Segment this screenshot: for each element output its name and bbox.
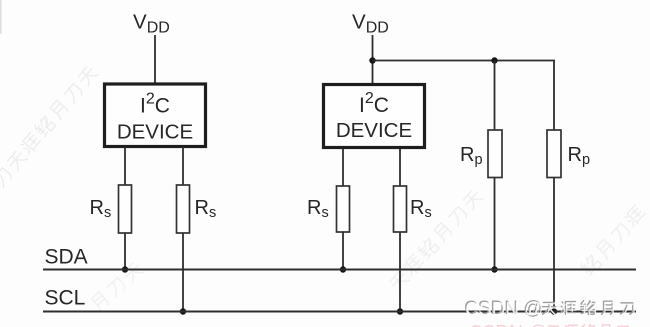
junction Rs4/SCL <box>397 308 403 314</box>
wire Rs3 to SDA bus <box>342 232 344 269</box>
svg-text:I2C: I2C <box>140 91 170 118</box>
wire U2 SCL pin to Rs4 <box>399 149 401 186</box>
wire U1 SCL pin to Rs2 <box>182 147 184 185</box>
CSDN watermark white emboss layer <box>465 299 634 320</box>
resistor Rs1 body <box>119 185 132 233</box>
resistor Rs3 body <box>337 186 350 232</box>
faint diagonal site watermark (upper-left) <box>0 64 99 188</box>
svg-text:CSDN @: CSDN @ <box>465 299 543 320</box>
I2C device U2 box <box>324 85 425 148</box>
svg-text:DEVICE: DEVICE <box>336 119 412 142</box>
wire rail to Rp1 <box>494 61 496 131</box>
wire Rs1 to SDA bus <box>124 233 126 269</box>
svg-text:I2C: I2C <box>359 90 389 117</box>
wire Rp1 to SDA bus <box>494 178 496 270</box>
faint diagonal site watermark (far right) <box>579 204 647 277</box>
left edge scan sliver <box>0 0 2 34</box>
resistor Rs2 body <box>177 185 190 233</box>
junction Rs1/SDA <box>122 266 128 272</box>
wire SCL bus <box>43 311 636 313</box>
wire SDA bus <box>43 269 636 271</box>
svg-text:SCL: SCL <box>45 286 86 309</box>
resistor Rp2 body <box>547 130 561 178</box>
CSDN watermark gray layer <box>464 298 633 319</box>
junction rail/Rp1 <box>491 57 497 63</box>
svg-text:CSDN @: CSDN @ <box>469 323 547 327</box>
wire U1 SDA pin to Rs1 <box>124 147 126 185</box>
CSDN watermark pink clipped second line <box>469 323 628 327</box>
junction Rp2/SCL <box>551 308 557 314</box>
junction Rp1/SDA <box>491 266 497 272</box>
wire Rp2 to SCL bus <box>553 178 555 312</box>
faint diagonal site watermark (lower-left) <box>90 261 145 312</box>
wire VDD2 down to U2 <box>372 35 374 85</box>
svg-text:DEVICE: DEVICE <box>117 120 193 143</box>
junction VDD2 node <box>369 57 375 63</box>
I2C device U1 box <box>105 84 206 147</box>
wire VDD1 down to U1 <box>154 35 156 84</box>
faint diagonal site watermark (right-middle) <box>387 188 484 293</box>
resistor Rs4 body <box>394 186 407 232</box>
wire U2 SDA pin to Rs3 <box>342 149 344 186</box>
wire VDD rail to pull-ups <box>373 61 555 131</box>
junction Rs3/SDA <box>340 266 346 272</box>
wire Rs4 to SCL bus <box>399 232 401 311</box>
junction Rs2/SCL <box>180 308 186 314</box>
wire Rs2 to SCL bus <box>182 233 184 311</box>
svg-text:SDA: SDA <box>45 245 88 268</box>
resistor Rp1 body <box>488 130 502 178</box>
